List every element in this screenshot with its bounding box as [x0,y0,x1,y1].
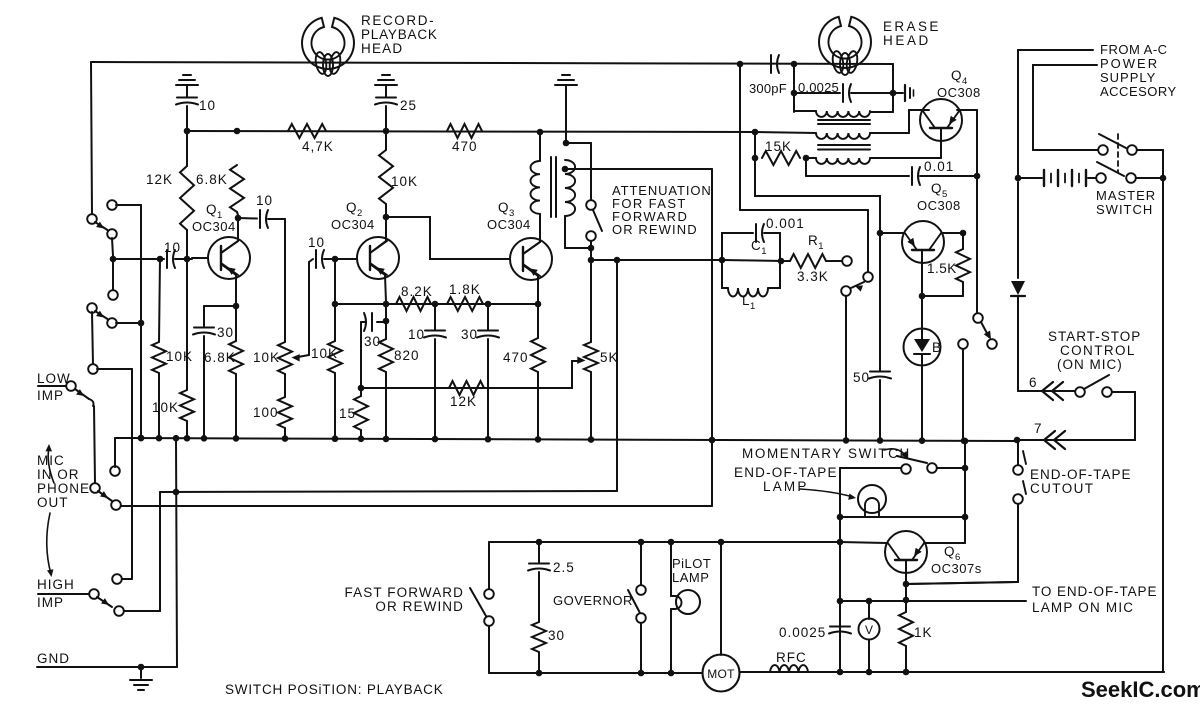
svg-text:V: V [865,623,873,637]
oscillator transformer core upper [818,120,870,124]
switch R1 contact [842,256,852,266]
svg-text:50: 50 [853,370,870,385]
node bus right end dot [1014,437,1021,444]
label PILOT LAMP [672,556,711,585]
wire rail x141 [138,205,145,441]
switch LOW IMP blade [75,389,94,406]
node bottom rail dots [837,669,910,676]
capacitor 300pF [771,55,797,73]
svg-text:TO END-OF-TAPE: TO END-OF-TAPE [1032,584,1157,599]
label 0.0025 (tank) [798,80,839,95]
svg-text:6: 6 [1029,375,1038,390]
wire motor box bottom rail [489,670,702,677]
label Q5 [931,181,948,200]
wire right border rail [1162,178,1164,672]
switch master upper right contact [1127,145,1137,155]
wire HIGH IMP stub [38,593,89,595]
label FROM A-C POWER SUPPLY ACCESORY [1100,42,1177,99]
switch master upper blade [1099,134,1126,148]
wire start-stop 6 line [1018,388,1075,391]
wire Q2 emitter [370,264,389,307]
svg-text:0.0025: 0.0025 [798,80,839,95]
label 10K (input shunt) [166,349,193,364]
label 50 [853,370,870,385]
potentiometer 5K [584,342,598,438]
wire momentary left rail x840 [837,468,844,672]
wire y260 to tank [588,257,722,264]
switch fast-forward blade [470,588,486,616]
svg-text:6.8K: 6.8K [196,172,228,187]
switch momentary right contact [927,463,937,473]
switch osc-kill upper contact [863,272,873,282]
switch S2 blade [95,311,109,320]
label 470 (Q3 emitter) [503,350,529,365]
wire cutout riser [1017,440,1019,465]
svg-text:OC308: OC308 [917,198,961,213]
wire momentary right rail x965 [962,438,969,543]
switch start-stop left contact [1075,387,1085,397]
label 15K [765,139,792,154]
wire osc-kill to bus [845,296,847,439]
svg-text:LAMP: LAMP [672,570,709,585]
label 1K [914,625,933,640]
label 470 [452,139,478,154]
resistor R1 3.3K [783,254,841,268]
wire motor branch [720,542,722,655]
wire LOW IMP to mic pole [94,406,95,483]
svg-text:MASTER: MASTER [1096,188,1156,203]
wire emitter to bypass cap [204,306,236,327]
label ATTENUATION FOR FAST FORWARD OR REWIND [612,183,712,237]
label C1 [751,238,767,257]
inductor L1 branch [722,261,780,297]
svg-text:100: 100 [253,405,279,420]
leader arrow to HIGH IMP [47,513,54,577]
wire bottom rail right [740,671,1164,673]
label RECORD-PLAYBACK HEAD [361,13,438,56]
switch HIGH moving contact [114,606,124,616]
wire 15K node elbow to Q5 [755,158,903,236]
wire bass-boost row y388 [361,387,572,389]
label 6 [1029,375,1038,390]
wire GND stub [37,664,177,671]
switch S2b contact [88,364,98,374]
label OC308 (Q4) [937,85,981,100]
label Q4 [951,68,968,87]
label 12K [146,172,173,187]
wire A-C stub upper [1018,50,1093,174]
wire wiper to coupling cap [309,259,313,262]
svg-text:IN OR: IN OR [37,467,80,482]
label Q2 [346,200,363,219]
label RFC [776,650,807,665]
wire A-C stub lower [1033,65,1098,150]
wire transformer primary top [539,132,541,161]
leader arrow to LOW IMP [46,444,55,483]
transistor Q2 [357,237,399,279]
svg-text:START-STOP: START-STOP [1048,329,1141,344]
connector chevron 7 [1044,431,1065,449]
label 10K (volume pot) [253,350,280,365]
ground above C-25uF [375,75,397,85]
capacitor 25 (decoupling, mid) [375,85,397,131]
wire left input riser [91,62,92,215]
svg-text:820: 820 [394,348,420,363]
node Q2 base dot [332,256,339,263]
svg-text:LOW: LOW [37,371,71,386]
resistor 10K (Q1 base lower) [180,262,194,438]
resistor 10K (input shunt) [152,259,166,438]
svg-text:(ON MIC): (ON MIC) [1057,357,1123,372]
label 6.8K [196,172,228,187]
svg-text:1.5K: 1.5K [927,261,957,276]
resistor 12K [180,131,194,256]
switch master lower left contact [1096,173,1106,183]
wire Q5 collector [942,230,966,237]
label OC308 (Q5) [917,198,961,213]
wire Q6 base stem [903,560,910,587]
capacitor 30 (Q1 emitter bypass) [193,328,215,440]
switch MIC fixed contact [110,441,120,476]
wire master lower to right rail [1136,177,1163,179]
switch MIC moving contact [111,500,121,510]
transformer T1 primary winding [531,161,541,214]
label B [932,340,942,355]
switch MIC blade [98,491,112,501]
label TO END-OF-TAPE LAMP ON MIC [1032,584,1157,615]
svg-text:HEAD: HEAD [883,33,931,48]
wire x132 rail [97,369,132,579]
label MASTER SWITCH [1096,188,1156,217]
switch governor branch [640,542,642,585]
svg-text:MOMENTARY SWITCH: MOMENTARY SWITCH [742,446,911,461]
switch S1a moving contact [107,229,117,239]
wire feedback row y304 [335,303,538,305]
wire node A riser [793,64,795,112]
label LOW IMP [37,371,71,403]
label L1 [742,293,756,312]
wire mic line y506 [121,505,712,507]
wire ff-switch to bottom [488,626,490,673]
svg-text:POWER: POWER [1100,56,1159,71]
wire start-stop return [1017,392,1135,440]
lamp B (bias indicator) [904,296,941,440]
wire riser x617 tone [616,260,618,491]
svg-text:4,7K: 4,7K [302,139,334,154]
node input cap dots [157,256,191,263]
svg-text:R1: R1 [808,233,824,252]
inductor RFC [770,665,808,672]
svg-text:OR REWIND: OR REWIND [375,599,464,614]
oscillator transformer winding 2 [755,132,909,139]
voltmeter V [859,601,880,672]
watermark SeekIC.com [1081,677,1200,702]
resistor 12K (feedback) [449,381,484,395]
capacitor 2.5 [528,542,550,622]
oscillator transformer winding 1 [794,111,893,117]
capacitor 10 (Q1 output) [238,210,285,228]
svg-text:12K: 12K [146,172,173,187]
svg-text:12K: 12K [450,394,477,409]
label 10 [199,98,216,113]
label Q3 [498,200,515,219]
svg-text:0.0025: 0.0025 [779,625,826,640]
label MOMENTARY SWITCH [742,446,911,461]
resistor 820 [379,321,393,439]
svg-text:RFC: RFC [776,650,807,665]
switch master lower blade [1097,162,1124,176]
switch fast-forward upper contact [484,589,494,599]
wire left power rail [1017,50,1019,278]
svg-text:OC307s: OC307s [931,561,982,576]
wire pilot branch [670,542,672,596]
label 4,7K [302,139,334,154]
wire Q6 left limb [840,542,886,543]
node feedback row dots [432,301,492,308]
switch S2 moving contact [107,318,141,328]
wire Q2 base bias riser [332,259,339,307]
wire Q1 collector [221,215,241,253]
wire master upper to right rail [1137,150,1163,178]
label MIC IN OR PHONE OUT [37,453,90,510]
svg-text:HIGH: HIGH [37,577,75,592]
wire mic riser x712 [711,169,713,506]
wire gnd riser x176 [176,439,177,667]
svg-text:15K: 15K [765,139,792,154]
node junction dots on bias rail [184,128,759,136]
ground above erase shield [555,75,577,85]
resistor 1.8K [447,297,483,311]
svg-text:SUPPLY: SUPPLY [1100,70,1156,85]
capacitor 0.0025 (motor) [779,625,851,640]
pot 5K wiper [470,357,586,389]
svg-text:5K: 5K [600,350,619,365]
wire Q3 emitter [523,265,541,307]
switch master upper left contact [1098,145,1108,155]
label 100 [253,405,279,420]
svg-text:10K: 10K [311,346,338,361]
wire S2 pole down [92,312,93,365]
lamp end-of-tape [858,485,886,517]
wire governor to bottom [640,623,642,673]
capacitor 30 (Q2 emitter) [361,304,389,388]
switch bias lower contact [987,339,997,349]
wire tank node [719,257,785,265]
wire momentary row [840,467,965,469]
transistor Q3 [510,238,552,280]
svg-text:PLAYBACK: PLAYBACK [361,27,438,42]
svg-text:LAMP: LAMP [763,479,809,494]
label END-OF-TAPE LAMP [734,465,838,494]
resistor 4.7K [288,124,326,138]
label GOVERNOR [553,593,633,608]
wire lamp row y517 [840,516,965,518]
wire tone line y492 [160,489,617,496]
wire motor box top rail [489,539,840,546]
wire Q4 collector rail [957,110,977,313]
label 30 (Q1 bypass) [217,325,234,340]
wire main ground bus [115,438,1017,467]
svg-text:6.8K: 6.8K [204,350,236,365]
wire Q1 out riser x285 [284,219,286,342]
switch attenuation upper contact [586,200,596,210]
switch start-stop right contact [1102,387,1112,397]
svg-text:ACCESORY: ACCESORY [1100,84,1177,99]
label 1.8K [449,282,481,297]
svg-text:END-OF-TAPE: END-OF-TAPE [734,465,838,480]
wire 0.01 row [806,158,980,185]
wire pilot to bottom [670,609,672,673]
svg-text:HEAD: HEAD [361,41,403,56]
svg-text:10: 10 [308,235,325,250]
svg-text:25: 25 [400,98,417,113]
svg-text:SWITCH POSiTION: PLAYBACK: SWITCH POSiTION: PLAYBACK [225,682,444,697]
switch momentary blade [897,456,927,463]
label 1.5K [927,261,957,276]
ground symbol [130,667,152,690]
svg-text:IMP: IMP [37,595,64,610]
label 30 (governor) [548,628,565,643]
svg-text:10: 10 [408,327,425,342]
wire Q4 base stem [940,128,942,158]
label 7 [1034,421,1043,436]
switch S1a blade [95,222,109,231]
leader arrow momentary [884,449,908,459]
svg-text:2.5: 2.5 [553,560,575,575]
svg-text:30: 30 [548,628,565,643]
switch fast-forward lower contact [484,616,494,626]
svg-text:MIC: MIC [37,453,65,468]
label 10 (Q1 output cap) [256,193,273,208]
wire ff-switch branch [488,542,490,589]
label 0.001 [766,216,805,231]
label OC307s (Q6) [931,561,982,576]
label 25 [400,98,417,113]
svg-text:FROM A-C: FROM A-C [1100,42,1168,57]
label ERASE HEAD [883,19,941,48]
capacitor 50 [869,233,891,439]
motor MOT [703,655,740,692]
switch cutout lower contact [1013,494,1023,504]
svg-text:10K: 10K [253,350,280,365]
bus junction dots [138,435,968,444]
switch governor upper contact [636,585,646,595]
wire tank cap row [791,84,897,102]
svg-text:OR REWIND: OR REWIND [612,222,698,237]
svg-text:CONTROL: CONTROL [1060,343,1136,358]
resistor 6.8K emitter [229,306,243,439]
wire Q6 right limb [924,542,965,544]
label GND [37,651,70,666]
svg-text:1.8K: 1.8K [449,282,481,297]
switch governor blade [628,590,640,613]
potentiometer 10K (volume) [278,342,292,397]
switch HIGH pole contact [89,589,99,599]
transistor Q6 [885,531,927,573]
label R1 [808,233,824,252]
resistor 10K (Q2 base bias) [328,304,342,439]
label HIGH IMP [37,577,75,610]
wire T1 tap y169 [562,166,712,173]
oscillator transformer core lower [818,145,870,150]
node battery rail dots [1015,175,1167,182]
transformer T1 secondary winding [565,160,575,216]
trimmer stub [893,85,914,101]
label 10 (Q2 coupling) [308,235,325,250]
label OC304 (Q1) [192,219,236,234]
resistor 30 (governor) [532,622,546,673]
erase head [819,17,871,75]
switch osc-kill lower contact [841,286,851,296]
label OC304 (Q3) [487,217,531,232]
switch osc-kill blade [851,282,864,292]
label 10 (input cap) [164,240,181,255]
label 30 (Q2 emitter cap) [364,334,381,349]
svg-text:15: 15 [339,406,356,421]
switch attenuation blade [593,210,602,231]
oscillator transformer winding 3 [806,158,941,164]
resistor 6.8K base bias [230,165,244,215]
label 8.2K [401,284,433,299]
svg-text:10: 10 [199,98,216,113]
svg-text:OC308: OC308 [937,85,981,100]
capacitor 10 (filter) [424,304,446,439]
switch start-stop blade [1084,375,1109,389]
switch LOW IMP contact [66,381,76,391]
svg-text:0.01: 0.01 [924,159,954,174]
label SWITCH POSITION: PLAYBACK [225,682,444,697]
svg-text:10K: 10K [152,400,179,415]
svg-text:ERASE: ERASE [883,19,941,34]
svg-text:300pF: 300pF [749,81,787,96]
label FAST FORWARD OR REWIND [345,585,464,614]
wire 1.5K to base node [919,293,963,300]
switch cutout blade 2 [1023,481,1026,494]
transistor Q5 [902,221,944,263]
svg-text:PiLOT: PiLOT [672,556,711,571]
wire Q1 emitter [221,264,239,309]
transistor Q4 [920,99,962,141]
switch HIGH upper contact [112,574,122,584]
label 15 [339,406,356,421]
wire LOW IMP stub [38,385,66,387]
switch master link [1117,134,1119,172]
svg-text:CUTOUT: CUTOUT [1030,481,1094,496]
transformer T1 core [551,157,556,217]
svg-text:30: 30 [217,325,234,340]
svg-text:PHONE: PHONE [37,481,90,496]
svg-text:30: 30 [461,327,478,342]
switch cutout upper contact [1013,465,1023,475]
diode D1 [1011,281,1025,388]
label Q6 [944,544,961,563]
svg-text:B: B [932,340,942,355]
wire Q3 collector [523,214,540,254]
resistor 100 [278,397,292,439]
wire bias rail y131 [187,131,755,132]
svg-text:10: 10 [256,193,273,208]
svg-text:GND: GND [37,651,70,666]
wire cutout to Q6 base [906,504,1018,584]
label 12K (feedback) [450,394,477,409]
switch S1a pole contact [87,214,97,224]
wire top rail from input switch to erase-head tank [91,62,893,64]
label OC304 (Q2) [331,217,375,232]
wire T1 secondary bottom [565,216,594,260]
resistor 1.5K [956,233,970,296]
wire switch feed [566,143,591,200]
switch attenuation lower contact [586,231,596,241]
